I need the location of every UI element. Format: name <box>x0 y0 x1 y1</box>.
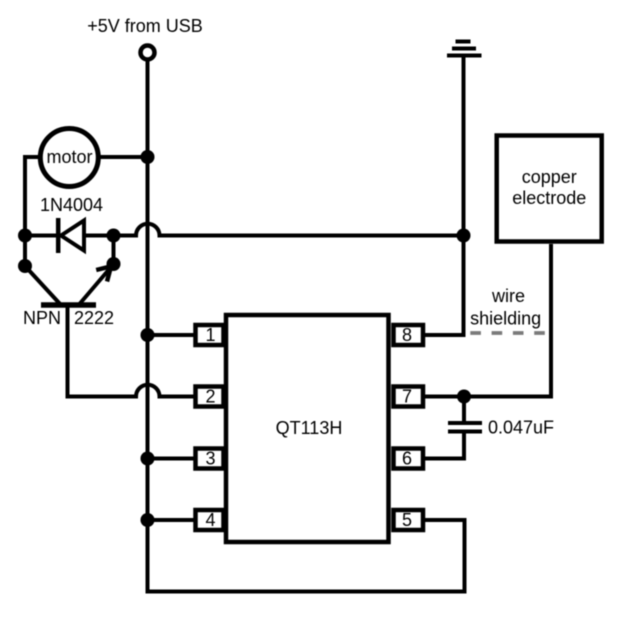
svg-text:wire: wire <box>491 286 525 306</box>
svg-text:7: 7 <box>402 387 412 407</box>
svg-text:+5V from USB: +5V from USB <box>87 16 203 36</box>
svg-text:8: 8 <box>402 325 412 345</box>
svg-text:electrode: electrode <box>512 188 586 208</box>
svg-text:1: 1 <box>205 325 215 345</box>
svg-text:shielding: shielding <box>470 309 541 329</box>
svg-text:NPN: NPN <box>23 308 61 328</box>
svg-text:copper: copper <box>522 167 577 187</box>
svg-text:5: 5 <box>402 510 412 530</box>
svg-text:1N4004: 1N4004 <box>40 195 103 215</box>
svg-text:3: 3 <box>205 449 215 469</box>
svg-text:motor: motor <box>46 147 92 167</box>
svg-text:QT113H: QT113H <box>276 418 343 438</box>
svg-text:2222: 2222 <box>74 308 114 328</box>
svg-text:4: 4 <box>205 510 215 530</box>
svg-text:6: 6 <box>402 449 412 469</box>
svg-text:2: 2 <box>205 387 215 407</box>
svg-text:0.047uF: 0.047uF <box>488 418 554 438</box>
